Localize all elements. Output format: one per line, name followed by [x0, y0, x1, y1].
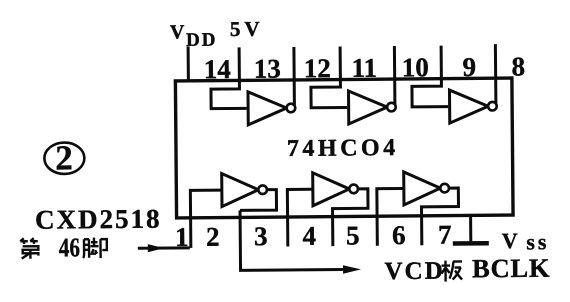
svg-text:VCD: VCD [384, 258, 444, 286]
svg-text:5V: 5V [230, 17, 264, 41]
svg-text:10: 10 [402, 52, 429, 82]
svg-text:2: 2 [55, 138, 73, 177]
svg-text:11: 11 [351, 53, 377, 83]
svg-text:2: 2 [206, 222, 220, 252]
svg-text:V: V [502, 228, 518, 253]
svg-text:5: 5 [346, 220, 360, 250]
svg-text:V: V [170, 21, 185, 43]
svg-text:3: 3 [254, 221, 268, 251]
svg-text:46: 46 [59, 233, 80, 263]
svg-text:7: 7 [438, 220, 452, 250]
svg-text:8: 8 [511, 51, 525, 81]
svg-text:CXD2518: CXD2518 [35, 204, 162, 235]
svg-text:1: 1 [175, 222, 189, 252]
svg-text:12: 12 [304, 53, 331, 83]
svg-text:BCLK: BCLK [472, 253, 551, 284]
svg-text:9: 9 [462, 52, 476, 82]
svg-text:6: 6 [392, 220, 406, 250]
svg-text:14: 14 [204, 54, 231, 84]
svg-text:DD: DD [186, 30, 218, 51]
svg-text:4: 4 [302, 221, 316, 251]
svg-text:ss: ss [526, 229, 549, 254]
svg-text:74HCO4: 74HCO4 [287, 135, 399, 162]
svg-text:13: 13 [254, 54, 281, 84]
